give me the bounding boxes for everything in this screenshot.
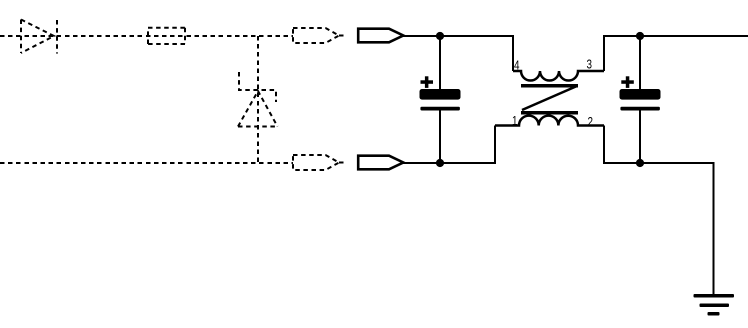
fuse F1 (dashed rectangle) bbox=[148, 28, 185, 44]
capacitor C2 positive lead bbox=[639, 36, 641, 90]
wire: top net from port to transformer pin 4 bbox=[403, 36, 513, 71]
wire: bottom net from port to transformer pin 1 bbox=[403, 126, 495, 164]
wire: transformer pin 3 up to top-right net bbox=[604, 36, 748, 71]
junction: top net at C1 bbox=[436, 32, 444, 40]
capacitor C2 negative plate bbox=[620, 107, 660, 111]
wire: dashed top net (left ghost circuit) bbox=[0, 35, 293, 37]
connector pad P4 (solid port, bottom) bbox=[358, 156, 403, 170]
diode D1 (dashed) bbox=[21, 20, 57, 54]
transformer T1 core bar (top) bbox=[521, 84, 578, 88]
transformer T1 secondary winding (pins 1-2) bbox=[495, 116, 604, 126]
zener diode VR1 (dashed) bbox=[238, 72, 278, 127]
junction: top net at C2 bbox=[636, 32, 644, 40]
svg-text:4: 4 bbox=[514, 58, 520, 73]
capacitor C1 plus sign bbox=[421, 76, 434, 88]
wire: dashed vertical branch to zener bbox=[257, 36, 259, 163]
capacitor C2 positive plate bbox=[620, 89, 661, 100]
wire: transformer pin 2 down to bottom-right net and ground run bbox=[604, 126, 714, 296]
connector pad P2 (dashed port, bottom) bbox=[293, 155, 344, 170]
junction: bottom net at C1 bbox=[436, 159, 444, 167]
svg-text:1: 1 bbox=[512, 113, 518, 128]
wire: dashed bottom net (left ghost circuit) bbox=[0, 162, 293, 164]
svg-text:2: 2 bbox=[588, 114, 594, 129]
capacitor C1 negative plate bbox=[420, 107, 460, 111]
transformer T1 primary winding (pins 4-3) bbox=[513, 71, 604, 81]
capacitor C2 plus sign bbox=[621, 76, 634, 88]
ground symbol bbox=[694, 294, 735, 316]
connector pad P1 (dashed port, top) bbox=[293, 28, 344, 43]
capacitor C1 positive plate bbox=[420, 89, 461, 100]
connector pad P3 (solid port, top) bbox=[358, 29, 403, 43]
capacitor C1 positive lead bbox=[439, 36, 441, 90]
transformer T1 core bar (bottom) bbox=[521, 111, 578, 115]
transformer T1 polarity diagonal bbox=[522, 86, 577, 110]
capacitor C1 negative lead bbox=[439, 110, 441, 163]
svg-text:3: 3 bbox=[587, 57, 593, 72]
capacitor C2 negative lead bbox=[639, 110, 641, 163]
junction: bottom net at C2 bbox=[636, 159, 644, 167]
